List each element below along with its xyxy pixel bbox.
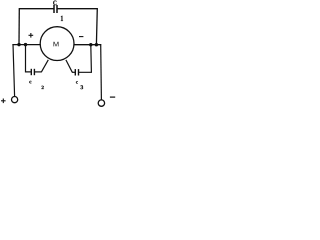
node junction dot C (right inner) bbox=[89, 43, 92, 46]
wire top left (from C1 to left corner) bbox=[19, 8, 54, 10]
wire C3 right lead and riser up to node C bbox=[79, 45, 92, 73]
wire C2 drop vertical from node B bbox=[26, 45, 31, 72]
wire top right (from C1 to right corner) bbox=[57, 8, 97, 10]
node junction dot B (left inner) bbox=[24, 43, 27, 46]
wire left outer vertical down to + terminal bbox=[13, 44, 15, 97]
wire right outer vertical down to - terminal bbox=[100, 44, 103, 100]
node junction dot A (left outer) bbox=[17, 43, 20, 46]
label + polarity at left brush bbox=[29, 33, 34, 38]
wire right vertical from top wire down to node bbox=[95, 8, 98, 45]
label 2 of C2 bbox=[42, 86, 44, 89]
label - of negative terminal bbox=[110, 96, 115, 98]
wire right brush lead horizontal bbox=[74, 44, 102, 46]
label 1 of C1 bbox=[61, 16, 63, 21]
capacitor C1 bbox=[54, 5, 57, 13]
wire left vertical from top wire down to node bbox=[18, 8, 20, 45]
node junction dot D (right outer) bbox=[95, 43, 98, 46]
label - polarity at right brush bbox=[79, 36, 83, 38]
terminal + (open circle, bottom left) bbox=[12, 97, 18, 103]
terminal - (open circle, bottom right) bbox=[98, 100, 104, 106]
wire C2 right lead to motor case leg bbox=[34, 71, 41, 73]
wire C3 left lead from motor case leg bbox=[72, 71, 75, 73]
wire motor case left leg (diagonal) bbox=[41, 60, 48, 73]
capacitor C3 bbox=[75, 69, 78, 75]
wire left brush lead horizontal bbox=[12, 44, 40, 46]
label 3 of C3 bbox=[81, 85, 84, 89]
label c of C3 bbox=[76, 81, 78, 83]
label + of positive terminal bbox=[1, 99, 6, 104]
capacitor C2 bbox=[31, 69, 34, 75]
label M of motor bbox=[54, 42, 59, 47]
motor M circle bbox=[40, 27, 74, 61]
label C of C1 bbox=[53, 1, 56, 6]
label c of C2 bbox=[29, 81, 31, 83]
wire motor case right leg (diagonal) bbox=[66, 60, 72, 72]
